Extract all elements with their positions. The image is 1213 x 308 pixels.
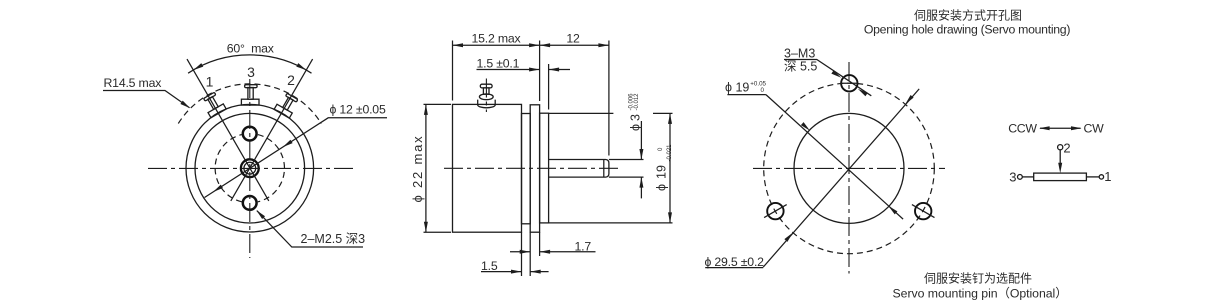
phi19 label underline	[727, 94, 766, 96]
svg-text:CCW: CCW	[1008, 122, 1037, 136]
ext line flange right	[539, 41, 541, 102]
double arrow	[1040, 127, 1081, 129]
dim phi19 vertical	[669, 113, 671, 222]
svg-text:3: 3	[1009, 170, 1016, 185]
ext line flange left down	[529, 232, 531, 276]
svg-text:ϕ 22 max: ϕ 22 max	[410, 135, 425, 203]
svg-text:ϕ: ϕ	[655, 184, 669, 191]
terminal 2 axis line	[231, 59, 313, 201]
terminal 2 circle	[1058, 145, 1063, 150]
body rectangle	[453, 104, 522, 232]
60 deg dimension arc	[188, 55, 311, 73]
dim 15.2 max	[453, 44, 540, 46]
phi12 bolt circle (dashed)	[258, 135, 285, 202]
terminal 1 circle	[1099, 175, 1103, 179]
svg-text:3–M3: 3–M3	[784, 47, 815, 61]
R14.5 arrowhead	[180, 101, 191, 110]
svg-text:-0.021: -0.021	[667, 144, 673, 162]
svg-text:Opening hole drawing (Servo mo: Opening hole drawing (Servo mounting)	[864, 23, 1070, 37]
ext line body right down	[521, 232, 523, 276]
svg-text:0: 0	[761, 87, 765, 94]
horizontal centerline	[753, 167, 945, 169]
shaft boss circle bold	[241, 159, 259, 177]
R14.5 underline and leader	[103, 91, 190, 108]
svg-text:深 5.5: 深 5.5	[784, 60, 817, 74]
svg-text:15.2 max: 15.2 max	[472, 32, 522, 46]
svg-text:12: 12	[566, 32, 580, 46]
svg-text:19: 19	[655, 165, 669, 179]
M3 hole top tangent tick	[841, 82, 859, 84]
svg-text:Servo mounting pin（Optional）: Servo mounting pin（Optional）	[893, 286, 1068, 300]
flange plate	[530, 105, 539, 232]
phi19 diagonal dimension line	[766, 95, 903, 220]
svg-text:伺服安装钉为选配件: 伺服安装钉为选配件	[924, 271, 1032, 286]
terminal 1 (upper left, -30deg)	[201, 91, 226, 117]
svg-text:1.5 ±0.1: 1.5 ±0.1	[477, 56, 520, 70]
svg-text:CW: CW	[1084, 122, 1105, 136]
terminal 1 lead	[1086, 176, 1099, 178]
phi19 rotated label	[655, 144, 674, 191]
svg-text:2: 2	[287, 72, 295, 88]
svg-text:R14.5 max: R14.5 max	[104, 76, 163, 90]
side terminal centerline	[485, 79, 487, 113]
60 arc left arrowhead	[192, 63, 203, 72]
svg-text:2–M2.5 深3: 2–M2.5 深3	[301, 232, 366, 246]
3-M3 far-side arrowhead	[857, 87, 868, 96]
60 arc right arrowhead	[296, 63, 307, 72]
ext line boss right	[548, 64, 550, 110]
side view centerline	[444, 167, 621, 169]
dim 12	[540, 44, 609, 46]
body outer circle	[186, 104, 314, 232]
M3 LR radial tick	[912, 205, 935, 218]
wiper line with arrow	[1059, 150, 1061, 168]
ext line body left	[452, 41, 454, 101]
rear pilot	[522, 114, 531, 224]
side terminal washer	[479, 94, 493, 100]
3-M3 underline and leader	[784, 60, 871, 96]
phi12 arrowhead upper	[282, 140, 293, 149]
phi12 underline and leader	[205, 118, 388, 198]
M3 LL radial tick	[764, 205, 787, 218]
svg-text:1.5: 1.5	[481, 259, 498, 273]
phi22 dimension line	[425, 104, 427, 232]
phi3 top extension	[609, 159, 644, 161]
svg-text:1: 1	[206, 73, 214, 89]
phi19 bottom extension	[549, 222, 673, 224]
terminal 2 (upper right, +30deg)	[274, 92, 299, 118]
resistor element rectangle	[1034, 173, 1087, 181]
horizontal centerline	[148, 167, 353, 169]
R14.5 dashed arc over terminals	[178, 84, 321, 124]
M2.5 hole bottom	[243, 196, 257, 210]
svg-text:2: 2	[1063, 140, 1070, 155]
terminal 1 axis line	[187, 59, 269, 201]
svg-text:+0.05: +0.05	[750, 81, 766, 88]
phi3 bottom extension	[609, 176, 644, 178]
ext line shaft end	[608, 41, 610, 156]
vertical centerline	[249, 79, 251, 258]
side terminal pin	[483, 88, 489, 94]
svg-text:-0.012: -0.012	[634, 93, 640, 111]
ext line flange right down	[539, 232, 541, 256]
terminal 3 lead	[1022, 176, 1033, 178]
phi29.5 underline	[705, 267, 763, 269]
front boss phi19	[540, 113, 549, 223]
2-M2.5 arrowhead	[255, 209, 265, 219]
body inner circle	[195, 113, 305, 223]
phi29.5 bolt circle dashed	[764, 83, 935, 254]
phi29.5 diagonal dimension line	[763, 89, 919, 267]
shaft inner circle	[244, 162, 256, 174]
2-M2.5 underline and leader	[257, 211, 363, 247]
phi3 rotated label	[629, 93, 643, 131]
svg-text:伺服安装方式开孔图: 伺服安装方式开孔图	[914, 8, 1022, 23]
shaft phi3	[549, 160, 609, 178]
svg-text:ϕ: ϕ	[629, 124, 643, 131]
phi12 arrowhead lower	[212, 185, 223, 194]
terminal 3 circle	[1018, 175, 1023, 180]
vertical centerline	[848, 62, 850, 274]
svg-text:ϕ 29.5 ±0.2: ϕ 29.5 ±0.2	[705, 255, 765, 269]
side terminal nut cylinder	[478, 100, 496, 108]
side terminal cap	[480, 84, 492, 88]
svg-text:ϕ 19: ϕ 19	[725, 81, 749, 95]
svg-text:60° max: 60° max	[227, 42, 275, 56]
shaft chamfer line	[603, 160, 605, 178]
phi19 hole circle	[794, 113, 904, 223]
phi19 top extension segments	[549, 112, 614, 114]
svg-text:3: 3	[247, 64, 255, 80]
phi22 dim extension bottom	[424, 231, 452, 233]
M2.5 hole top	[243, 127, 257, 141]
phi22 dim extension top	[424, 103, 452, 105]
M3 hole lower-left	[767, 203, 783, 219]
svg-text:3: 3	[629, 114, 643, 121]
terminal 3 (top)	[241, 85, 259, 105]
phi22 max rotated label	[410, 135, 425, 203]
svg-text:1: 1	[1104, 169, 1111, 184]
M3 hole top	[841, 75, 857, 91]
M3 hole lower-right	[915, 203, 931, 219]
dim phi3 vertical	[640, 121, 642, 160]
svg-text:ϕ 12 ±0.05: ϕ 12 ±0.05	[330, 102, 386, 116]
